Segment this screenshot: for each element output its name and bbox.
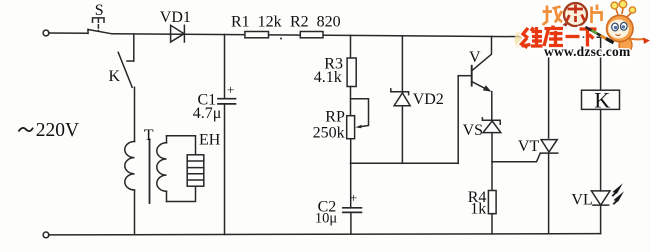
svg-text:V: V: [469, 49, 481, 66]
resistor R3: [347, 58, 356, 87]
wire relay to VL: [600, 109, 602, 190]
svg-text:www.dzsc.com: www.dzsc.com: [544, 44, 631, 59]
switch K: [118, 52, 134, 87]
diode VD1: [171, 25, 185, 42]
wire top rail left segment: [49, 32, 88, 34]
watermark glyph zhao: [543, 6, 563, 26]
wire emitter to VS: [491, 92, 493, 121]
svg-text:S: S: [95, 2, 104, 19]
wire K branch upper: [133, 34, 135, 61]
svg-text:T: T: [144, 127, 154, 144]
wire base node: [351, 162, 459, 164]
wire VT branch top: [548, 37, 550, 138]
wire base vertical: [457, 76, 459, 164]
transistor V: [458, 36, 491, 91]
svg-text:4.1k: 4.1k: [314, 69, 342, 86]
ink speck: [280, 38, 282, 40]
resistor R2: [300, 32, 323, 38]
svg-text:4.7μ: 4.7μ: [193, 105, 222, 122]
wire bottom rail: [49, 234, 601, 235]
svg-text:VT: VT: [518, 138, 540, 155]
wire K to transformer: [134, 87, 136, 141]
wire primary to bottom rail: [134, 190, 136, 235]
svg-text:VS: VS: [463, 122, 483, 139]
svg-text:220V: 220V: [36, 120, 79, 141]
svg-text:EH: EH: [199, 132, 221, 149]
svg-text:1k: 1k: [470, 201, 486, 218]
svg-text:250k: 250k: [313, 125, 345, 142]
LED VL: [591, 183, 624, 205]
terminal top-left: [43, 30, 49, 36]
watermark: [515, 0, 650, 59]
thyristor VT: [541, 140, 558, 154]
wire R4 to bottom rail: [491, 214, 493, 234]
svg-text:K: K: [109, 68, 121, 85]
svg-text:VL: VL: [571, 192, 592, 209]
potentiometer RP: [347, 99, 369, 139]
wire R3 branch top: [350, 35, 352, 58]
wire R3 to RP: [350, 87, 352, 116]
wire VT gate: [492, 153, 540, 162]
watermark mascot: [586, 0, 650, 55]
watermark magnifier circle: [564, 3, 587, 26]
watermark glyph xin: [567, 5, 585, 23]
wire relay branch top: [600, 37, 602, 90]
capacitor C2: [343, 208, 362, 234]
wire VD2 branch top: [401, 36, 403, 92]
zener VS: [482, 118, 500, 191]
heater EH: [187, 155, 204, 186]
wire VT to bottom rail: [548, 153, 550, 234]
svg-text:+: +: [350, 190, 357, 205]
svg-text:+: +: [227, 82, 234, 97]
watermark glow: [515, 32, 524, 48]
wire RP to C2: [350, 139, 352, 208]
svg-text:10μ: 10μ: [315, 211, 338, 227]
capacitor C1: [218, 34, 236, 234]
watermark glyph pian: [592, 5, 604, 24]
wire secondary to EH loop: [167, 136, 196, 202]
wire VL to bottom rail: [600, 205, 602, 234]
svg-text:RP: RP: [325, 109, 345, 126]
svg-text:R1 12k: R1 12k: [231, 14, 282, 31]
switch S: [88, 18, 112, 34]
resistor R1: [245, 32, 269, 38]
svg-text:R2 820: R2 820: [290, 14, 341, 31]
transformer T secondary: [157, 136, 167, 202]
wire top rail main: [112, 34, 601, 37]
svg-text:K: K: [594, 88, 610, 113]
transformer core: [149, 140, 151, 204]
svg-text:VD1: VD1: [160, 9, 191, 26]
label ~220V: [19, 128, 34, 132]
transformer T primary: [125, 142, 135, 191]
terminal bottom-left: [43, 232, 49, 238]
svg-text:VD2: VD2: [413, 91, 444, 108]
resistor R4: [488, 191, 496, 214]
relay K: [582, 90, 620, 109]
zener VD2: [391, 89, 410, 163]
watermark text weikuyixia: [522, 26, 597, 48]
